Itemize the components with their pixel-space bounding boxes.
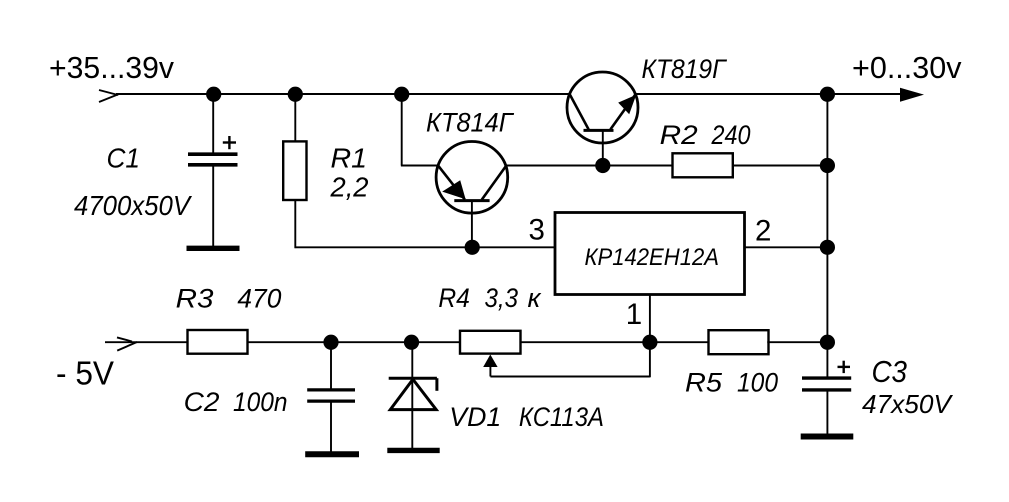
svg-text:2,2: 2,2 — [330, 171, 369, 202]
resistor R3 — [188, 330, 248, 354]
wire R1 top lead — [294, 94, 296, 141]
capacitor C2 — [307, 390, 355, 401]
node VD1 — [404, 335, 419, 350]
wire top rail output segment — [635, 93, 916, 95]
svg-text:4700x50V: 4700x50V — [74, 190, 192, 221]
wire C3 bottom lead — [826, 391, 828, 434]
node pin1 junction — [642, 335, 657, 350]
svg-text:3,3: 3,3 — [485, 283, 519, 313]
resistor R1 — [283, 141, 306, 200]
capacitor C3 — [802, 378, 851, 390]
transistor Q1 KT814 — [436, 142, 508, 214]
svg-text:100n: 100n — [233, 387, 288, 417]
wire pin1 — [649, 295, 651, 343]
node C2 — [323, 335, 338, 350]
svg-text:КР142ЕН12А: КР142ЕН12А — [585, 244, 720, 271]
wire pin2 — [745, 246, 829, 248]
svg-text:КС113А: КС113А — [519, 402, 604, 432]
node Q1 base / pin3 — [465, 240, 480, 255]
node input-C1 — [206, 87, 221, 102]
wire wiper riser — [649, 342, 651, 377]
node pin2 bus — [820, 240, 835, 255]
regulator U1 KR142EN12A — [555, 213, 745, 295]
svg-text:+35...39v: +35...39v — [49, 50, 174, 85]
transistor Q2 KT819 — [567, 72, 638, 143]
wire C2 top lead — [330, 342, 332, 389]
C3 ground bar — [801, 434, 854, 440]
wire Q1 drop from rail — [401, 94, 403, 166]
node Q2 base — [595, 158, 610, 173]
node input-R1 — [288, 87, 303, 102]
svg-text:R2: R2 — [660, 120, 698, 150]
wire wiper to pin1 — [490, 376, 650, 378]
R4 wiper arrow — [483, 355, 497, 368]
wire VD1 top lead — [411, 342, 413, 379]
svg-text:R5: R5 — [685, 368, 723, 398]
svg-text:R1: R1 — [331, 143, 368, 174]
wire R4 to R5 — [521, 341, 709, 343]
node input-Q1 — [394, 87, 409, 102]
wire wiper lead — [489, 366, 491, 377]
svg-text:240: 240 — [711, 120, 751, 150]
output arrow — [900, 88, 924, 102]
svg-text:C1: C1 — [107, 143, 141, 174]
node output-rail — [820, 87, 835, 102]
C3 plus sign — [838, 361, 851, 373]
svg-text:3: 3 — [529, 213, 545, 246]
wire R3 to R4 — [248, 341, 461, 343]
zener VD1 — [389, 378, 437, 409]
svg-text:C2: C2 — [184, 387, 220, 417]
wire C3 top lead — [826, 342, 828, 379]
C1 ground bar — [187, 246, 240, 251]
wire R5 to bus — [767, 341, 828, 343]
svg-text:КТ819Г: КТ819Г — [642, 54, 728, 84]
svg-text:VD1: VD1 — [449, 402, 501, 432]
svg-text:+0...30v: +0...30v — [852, 50, 962, 85]
svg-text:100: 100 — [737, 368, 778, 398]
wire Q1 emitter feed — [401, 165, 438, 167]
input chevron — [99, 90, 119, 102]
wire R1 bottom lead — [294, 200, 296, 248]
svg-text:47x50V: 47x50V — [862, 389, 954, 419]
wire R2 to right bus — [733, 165, 829, 167]
wire VD1 bottom lead — [411, 379, 413, 449]
wire bottom rail to R3 — [105, 341, 188, 343]
wire C1 bottom lead — [212, 166, 214, 246]
svg-text:R3: R3 — [176, 283, 214, 313]
potentiometer R4 — [460, 331, 521, 354]
svg-text:- 5V: - 5V — [56, 356, 115, 393]
wire right bus vertical — [826, 94, 828, 342]
C2 ground bar — [305, 451, 359, 457]
VD1 ground bar — [387, 448, 439, 453]
node R2 right — [820, 158, 835, 173]
svg-text:1: 1 — [626, 298, 642, 331]
resistor R2 — [673, 153, 733, 177]
svg-text:2: 2 — [755, 215, 771, 248]
svg-text:470: 470 — [237, 283, 281, 313]
wire Q2 base lead — [602, 130, 604, 166]
wire Q1 collector to node — [506, 165, 604, 167]
svg-text:КТ814Г: КТ814Г — [426, 108, 515, 138]
wire node to R2 — [603, 165, 673, 167]
C1 plus sign — [223, 136, 236, 149]
capacitor C1 — [188, 154, 238, 165]
svg-text:C3: C3 — [872, 354, 908, 389]
svg-text:к: к — [528, 283, 542, 313]
wire Q1 base lead — [471, 201, 473, 248]
wire C2 bottom lead — [330, 402, 332, 452]
wire top rail input segment — [116, 93, 570, 95]
bottom input chevron — [117, 337, 137, 350]
node bus bottom — [820, 335, 835, 350]
svg-text:R4: R4 — [438, 283, 470, 313]
wire pin3 — [295, 246, 556, 248]
resistor R5 — [709, 330, 769, 354]
wire C1 top lead — [212, 94, 214, 153]
